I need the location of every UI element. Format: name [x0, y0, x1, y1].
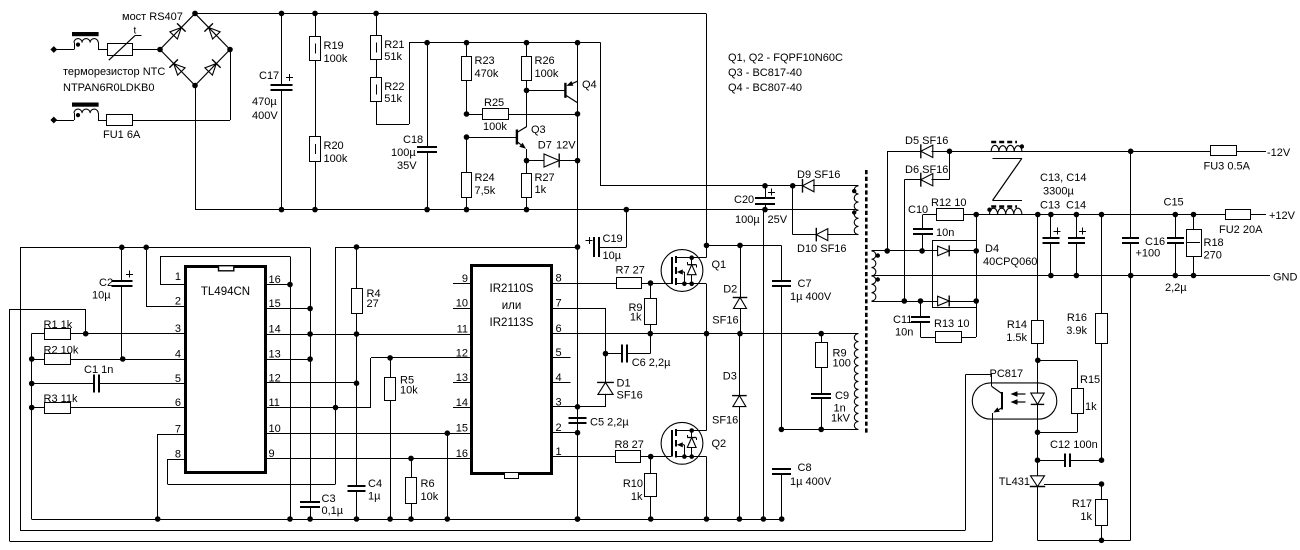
zener diode D7 12V: [524, 111, 581, 167]
diode D6 SF16: [904, 151, 949, 301]
capacitor C11 10n: [893, 301, 930, 339]
wire ground rail A: [32, 516, 785, 522]
wire +12V line: [976, 212, 1266, 218]
svg-text:D2: D2: [723, 284, 737, 296]
svg-text:R2 10k: R2 10k: [44, 345, 79, 357]
svg-text:D1: D1: [617, 378, 631, 390]
svg-text:R23: R23: [475, 55, 495, 67]
svg-text:SF16: SF16: [712, 315, 738, 327]
svg-text:C3: C3: [322, 493, 336, 505]
svg-text:R8 27: R8 27: [615, 439, 644, 451]
svg-text:10n: 10n: [936, 227, 954, 239]
resistor R13 10: [921, 318, 977, 343]
svg-text:SF16: SF16: [617, 390, 643, 402]
resistor R15 1k: [1038, 374, 1100, 433]
transformer T1 secondary winding: [872, 251, 881, 301]
wire TL494 feedback line A: [20, 245, 313, 531]
svg-text:2: 2: [175, 296, 181, 308]
svg-text:C10: C10: [908, 204, 928, 216]
resistor R9 1k gate: [628, 283, 656, 334]
transformer T1 aux winding: [852, 186, 859, 235]
svg-text:51k: 51k: [384, 93, 402, 105]
svg-text:100µ: 100µ: [735, 214, 760, 226]
wire -12V line: [950, 149, 1267, 155]
inductor L2 coupling mark Z: [993, 158, 1022, 200]
svg-text:FU1 6A: FU1 6A: [103, 129, 141, 141]
wire TL pin14 to IR pin11: [266, 331, 472, 337]
svg-text:D3: D3: [723, 371, 737, 383]
wire secondary bottom lead: [872, 298, 933, 304]
wire TL494 pin16 stub: [266, 284, 290, 286]
capacitor C15 2.2u: [1164, 197, 1188, 295]
wire Q2 source to ground: [706, 457, 708, 519]
svg-text:C13, C14: C13, C14: [1040, 172, 1086, 184]
wire secondary top lead: [872, 248, 933, 254]
shunt regulator TL431: [999, 460, 1104, 540]
svg-text:1k: 1k: [535, 184, 547, 196]
wire TL pin15 pin14 pin13 junctions: [266, 309, 311, 360]
wire R22 to aux rail: [376, 43, 409, 125]
wire R14 R15 node: [1035, 358, 1078, 389]
wire snubber node: [781, 427, 858, 433]
label thermistor type: [63, 66, 165, 94]
resistor R20 100k: [310, 61, 348, 210]
wire comp loop: [10, 309, 86, 541]
resistor R8 27: [615, 439, 661, 463]
svg-text:C1 1n: C1 1n: [84, 364, 113, 376]
svg-text:100k: 100k: [324, 53, 348, 65]
diode D10 SF16: [793, 186, 859, 255]
fuse FU3 0.5A: [1204, 146, 1251, 173]
resistor R24 7.5k: [462, 137, 496, 210]
transformer T1 core: [865, 170, 868, 434]
svg-text:R16: R16: [1067, 312, 1087, 324]
svg-text:12: 12: [456, 347, 468, 359]
svg-text:или: или: [502, 300, 522, 312]
svg-text:FU2 20A: FU2 20A: [1219, 224, 1263, 236]
wire opto LED cathode: [1035, 419, 1041, 463]
svg-text:1.5k: 1.5k: [1006, 332, 1027, 344]
capacitor C2 10u: [92, 247, 133, 359]
label -12V output: [1267, 147, 1291, 159]
wire TL431 ground return: [1038, 276, 1131, 544]
svg-text:470µ: 470µ: [252, 96, 277, 108]
wire C20 return vertical: [763, 210, 765, 519]
op-amp U2 IR2110S gate driver: [453, 266, 571, 479]
svg-text:1k: 1k: [1085, 401, 1097, 413]
svg-text:7,5k: 7,5k: [475, 185, 496, 197]
resistor R5 10k: [385, 358, 419, 522]
svg-text:10n: 10n: [895, 327, 913, 339]
svg-text:NTPAN6R0LDKB0: NTPAN6R0LDKB0: [63, 82, 155, 94]
svg-text:11: 11: [457, 324, 468, 336]
wire TL pin7 to ground rail: [155, 434, 185, 522]
wire TL pin11 to IR pin12: [266, 355, 472, 407]
diode D4 40CPQ060 dual schottky: [932, 241, 1037, 308]
wire TL pin12 line: [266, 382, 357, 384]
svg-text:D10 SF16: D10 SF16: [797, 243, 847, 255]
resistor R3 11k: [29, 393, 185, 414]
svg-text:R14: R14: [1007, 319, 1027, 331]
resistor R25 100k: [464, 97, 578, 133]
svg-text:100k: 100k: [483, 121, 507, 133]
svg-text:51k: 51k: [384, 51, 402, 63]
svg-text:270: 270: [1204, 250, 1222, 262]
svg-text:10µ: 10µ: [603, 250, 622, 262]
wire IR pin6 Vs midpoint rail: [552, 331, 859, 337]
svg-text:R15: R15: [1080, 374, 1100, 386]
svg-text:1k: 1k: [631, 491, 643, 503]
svg-text:R26: R26: [535, 55, 555, 67]
capacitor C9 1n 1kV: [811, 368, 850, 430]
svg-text:Q3 - BC817-40: Q3 - BC817-40: [728, 67, 802, 79]
svg-text:+100: +100: [1136, 248, 1161, 260]
svg-text:8: 8: [556, 273, 562, 285]
capacitor C1 1n: [29, 364, 185, 393]
svg-text:1µ: 1µ: [368, 491, 381, 503]
resistor R21 51k: [371, 13, 405, 63]
thermistor RT1 NTC: [108, 26, 142, 61]
svg-text:R21: R21: [384, 39, 404, 51]
resistor R6 10k: [406, 458, 439, 521]
svg-text:R18: R18: [1204, 237, 1224, 249]
svg-text:Q4 - BC807-40: Q4 - BC807-40: [728, 82, 802, 94]
label transistor types: [728, 52, 843, 94]
svg-text:t: t: [134, 26, 137, 37]
svg-text:R12 10: R12 10: [931, 197, 966, 209]
svg-text:0,1µ: 0,1µ: [322, 505, 344, 517]
wire aux supply rail: [409, 40, 600, 46]
svg-text:C17: C17: [259, 70, 279, 82]
capacitor C4 1u: [348, 478, 383, 522]
capacitor C13 3300u: [1042, 215, 1060, 276]
svg-text:1µ 400V: 1µ 400V: [790, 291, 832, 303]
diode D5 SF16: [887, 135, 952, 251]
svg-text:R1 1k: R1 1k: [44, 319, 73, 331]
wire R4 bottom / C4 vertical: [354, 314, 360, 487]
wire Vcc line B: [336, 244, 578, 407]
capacitor C19 10u: [586, 210, 627, 262]
wire opto LED anode: [1037, 360, 1039, 383]
svg-text:25V: 25V: [768, 214, 788, 226]
svg-text:1µ 400V: 1µ 400V: [790, 476, 832, 488]
wire TL pin5 line: [99, 383, 186, 385]
capacitor C6 2.2u bootstrap: [605, 334, 671, 369]
transistor Q3 BC817: [464, 88, 546, 161]
svg-text:D4: D4: [985, 243, 999, 255]
svg-text:GND: GND: [1273, 272, 1298, 284]
svg-text:1kV: 1kV: [831, 413, 851, 425]
diode D2 SF16: [712, 245, 747, 333]
bridge rectifier D мост RS407: [122, 11, 233, 89]
wire Q1 source to midpoint: [706, 284, 708, 334]
svg-text:27: 27: [367, 298, 379, 310]
svg-text:1: 1: [175, 271, 181, 283]
svg-text:1k: 1k: [630, 312, 642, 324]
wire TL pin10 to IR pin15: [266, 430, 472, 521]
capacitor C3 0.1u: [300, 493, 344, 522]
svg-text:R25: R25: [484, 97, 504, 109]
wire Vcc vertical: [575, 43, 581, 522]
svg-text:400V: 400V: [252, 110, 278, 122]
resistor R16 3.9k: [1066, 215, 1107, 461]
svg-text:C2: C2: [99, 277, 113, 289]
inductor L1 common-mode choke winding A: [72, 32, 107, 50]
svg-text:IR2113S: IR2113S: [490, 317, 534, 329]
svg-text:PC817: PC817: [990, 368, 1024, 380]
svg-text:2,2µ: 2,2µ: [1165, 282, 1187, 294]
svg-text:терморезистор NTC: терморезистор NTC: [63, 66, 165, 78]
svg-text:C12 100n: C12 100n: [1050, 439, 1098, 451]
resistor R19 100k: [310, 13, 348, 65]
svg-text:12V: 12V: [556, 140, 576, 152]
transformer T1 primary winding: [854, 334, 858, 430]
wire R-divider vertical: [31, 334, 33, 520]
svg-text:R20: R20: [324, 140, 344, 152]
svg-text:R17: R17: [1072, 498, 1092, 510]
svg-text:Q2: Q2: [712, 438, 727, 450]
svg-text:15: 15: [456, 423, 468, 435]
wire IR pin1 line: [552, 456, 616, 458]
capacitor C7 1u 400V: [772, 245, 832, 429]
resistor R9 100 snubber: [816, 334, 851, 370]
svg-text:Q1: Q1: [712, 259, 727, 271]
svg-text:Q1, Q2 - FQPF10N60C: Q1, Q2 - FQPF10N60C: [728, 52, 843, 64]
svg-text:R13 10: R13 10: [934, 318, 969, 330]
svg-text:R10: R10: [623, 478, 643, 490]
svg-text:100k: 100k: [324, 153, 348, 165]
resistor R4 27: [352, 247, 381, 314]
svg-text:3300µ: 3300µ: [1043, 186, 1074, 198]
capacitor C20 100u 25V: [734, 186, 788, 226]
diode D3 SF16: [712, 334, 747, 519]
svg-text:14: 14: [269, 324, 281, 336]
svg-text:R19: R19: [324, 40, 344, 52]
resistor R10 1k: [623, 457, 657, 519]
capacitor C5 2.2u: [552, 407, 630, 433]
label GND output: [1273, 272, 1298, 284]
resistor R14 1.5k: [1006, 215, 1043, 361]
resistor R23 470k: [462, 43, 499, 114]
fuse FU1 6A: [98, 115, 141, 142]
svg-text:мост RS407: мост RS407: [122, 11, 183, 23]
wire Q1 drain to HV+: [704, 243, 782, 258]
svg-text:C18: C18: [403, 134, 423, 146]
svg-text:7: 7: [175, 424, 181, 436]
svg-text:Q3: Q3: [531, 124, 546, 136]
svg-text:6: 6: [175, 397, 181, 409]
svg-text:D7: D7: [538, 140, 552, 152]
capacitor C8 1u 400V: [772, 427, 832, 519]
op-amp U1 TL494CN PWM controller: [175, 266, 281, 472]
svg-text:SF16: SF16: [712, 415, 738, 427]
wire opto collector rail B: [20, 530, 965, 532]
svg-text:4: 4: [175, 349, 181, 361]
diode D1 SF16 bootstrap: [597, 378, 643, 407]
svg-text:10k: 10k: [421, 491, 439, 503]
capacitor C17 470u 400V: [252, 13, 293, 209]
wire thermistor to bridge: [133, 49, 161, 51]
svg-text:R6: R6: [421, 478, 435, 490]
svg-text:TL494CN: TL494CN: [201, 286, 250, 298]
svg-text:C20: C20: [734, 194, 754, 206]
svg-text:C14: C14: [1066, 200, 1086, 212]
svg-text:C16: C16: [1145, 236, 1165, 248]
svg-text:D5 SF16: D5 SF16: [905, 135, 948, 147]
wire HV- bottom rail: [195, 86, 856, 213]
svg-text:-12V: -12V: [1267, 147, 1291, 159]
transistor Q2 FQPF10N60C: [660, 422, 727, 464]
svg-text:IR2110S: IR2110S: [490, 283, 534, 295]
svg-text:FU3 0.5A: FU3 0.5A: [1204, 161, 1251, 173]
svg-text:R24: R24: [475, 172, 495, 184]
node AC input N terminal: [50, 117, 74, 124]
fuse FU2 20A: [1219, 210, 1263, 237]
wire fuse to bridge: [132, 50, 231, 121]
svg-text:16: 16: [456, 448, 468, 460]
svg-text:3: 3: [175, 323, 181, 335]
capacitor C16 100u: [1122, 151, 1165, 275]
wire opto collector out: [965, 374, 992, 530]
svg-text:100k: 100k: [535, 68, 559, 80]
svg-text:TL431: TL431: [999, 476, 1030, 488]
transistor Q1 FQPF10N60C: [660, 250, 727, 292]
svg-text:100µ: 100µ: [391, 147, 416, 159]
svg-text:10: 10: [456, 298, 468, 310]
svg-text:3.9k: 3.9k: [1066, 325, 1087, 337]
opto-isolator U3 PC817: [972, 368, 1057, 541]
inductor L2 choke +12V winding: [987, 207, 1022, 215]
svg-text:R3 11k: R3 11k: [44, 393, 79, 405]
resistor R18 270: [1187, 215, 1224, 276]
svg-text:10µ: 10µ: [92, 290, 111, 302]
svg-text:D9 SF16: D9 SF16: [797, 169, 840, 181]
svg-text:470k: 470k: [475, 68, 499, 80]
svg-text:100: 100: [833, 358, 851, 370]
capacitor C10 10n: [908, 204, 954, 251]
resistor R2 10k: [29, 345, 185, 365]
wire D4 output vertical: [973, 212, 979, 337]
svg-text:C19: C19: [603, 233, 623, 245]
capacitor C14 3300u: [1068, 215, 1086, 276]
wire TL494 pin2 link: [146, 247, 185, 306]
svg-text:C5 2,2µ: C5 2,2µ: [590, 417, 629, 429]
label +12V output: [1269, 210, 1296, 222]
wire Q2 drain to midpoint: [706, 334, 708, 431]
svg-text:C8: C8: [798, 462, 812, 474]
wire TL pin9 to IR pin16: [266, 456, 472, 462]
node AC input L terminal: [50, 46, 74, 53]
svg-text:C7: C7: [798, 278, 812, 290]
capacitor C18 100u 35V: [391, 43, 437, 210]
svg-text:R7 27: R7 27: [616, 265, 645, 277]
svg-text:D6 SF16: D6 SF16: [905, 164, 948, 176]
inductor L1 common-mode choke winding B: [72, 103, 99, 121]
svg-text:C9: C9: [835, 390, 849, 402]
svg-text:R27: R27: [535, 172, 555, 184]
svg-text:40CPQ060: 40CPQ060: [983, 256, 1037, 268]
svg-text:C6 2,2µ: C6 2,2µ: [632, 357, 671, 369]
label C13 C14 values: [1040, 172, 1086, 212]
resistor R27 1k: [522, 149, 555, 209]
resistor R22 51k: [371, 60, 405, 106]
wire HV+ top rail: [195, 11, 707, 246]
svg-text:10k: 10k: [400, 385, 418, 397]
diode D9 SF16: [793, 169, 859, 193]
svg-text:C4: C4: [368, 478, 382, 490]
svg-text:C13: C13: [1040, 200, 1060, 212]
svg-text:1k: 1k: [1080, 511, 1092, 523]
resistor R17 1k: [1072, 484, 1108, 540]
wire GND center line: [872, 273, 1271, 279]
svg-text:7: 7: [556, 298, 562, 310]
svg-text:R22: R22: [384, 81, 404, 93]
svg-text:16: 16: [269, 274, 281, 286]
inductor L2 choke -12V winding: [991, 142, 1024, 151]
svg-text:35V: 35V: [397, 160, 417, 172]
svg-text:8: 8: [175, 449, 181, 461]
svg-text:Q4: Q4: [582, 79, 597, 91]
svg-text:+12V: +12V: [1269, 210, 1296, 222]
wire TL494 pin1 loop: [160, 257, 293, 522]
resistor R26 100k: [522, 43, 559, 127]
wire aux rail to C20: [601, 43, 796, 189]
wire TL pin8 link: [168, 405, 339, 485]
svg-text:C11: C11: [893, 314, 912, 326]
svg-text:13: 13: [269, 349, 281, 361]
capacitor C12 100n: [1038, 439, 1105, 467]
wire opto emitter rail C: [10, 541, 993, 543]
resistor R1 1k: [32, 319, 186, 340]
svg-text:C15: C15: [1164, 197, 1184, 209]
resistor R12 10: [923, 197, 976, 221]
transistor Q4 BC807: [527, 43, 597, 114]
wire IR pin7 VB net: [552, 308, 609, 382]
resistor R7 27: [552, 265, 661, 289]
